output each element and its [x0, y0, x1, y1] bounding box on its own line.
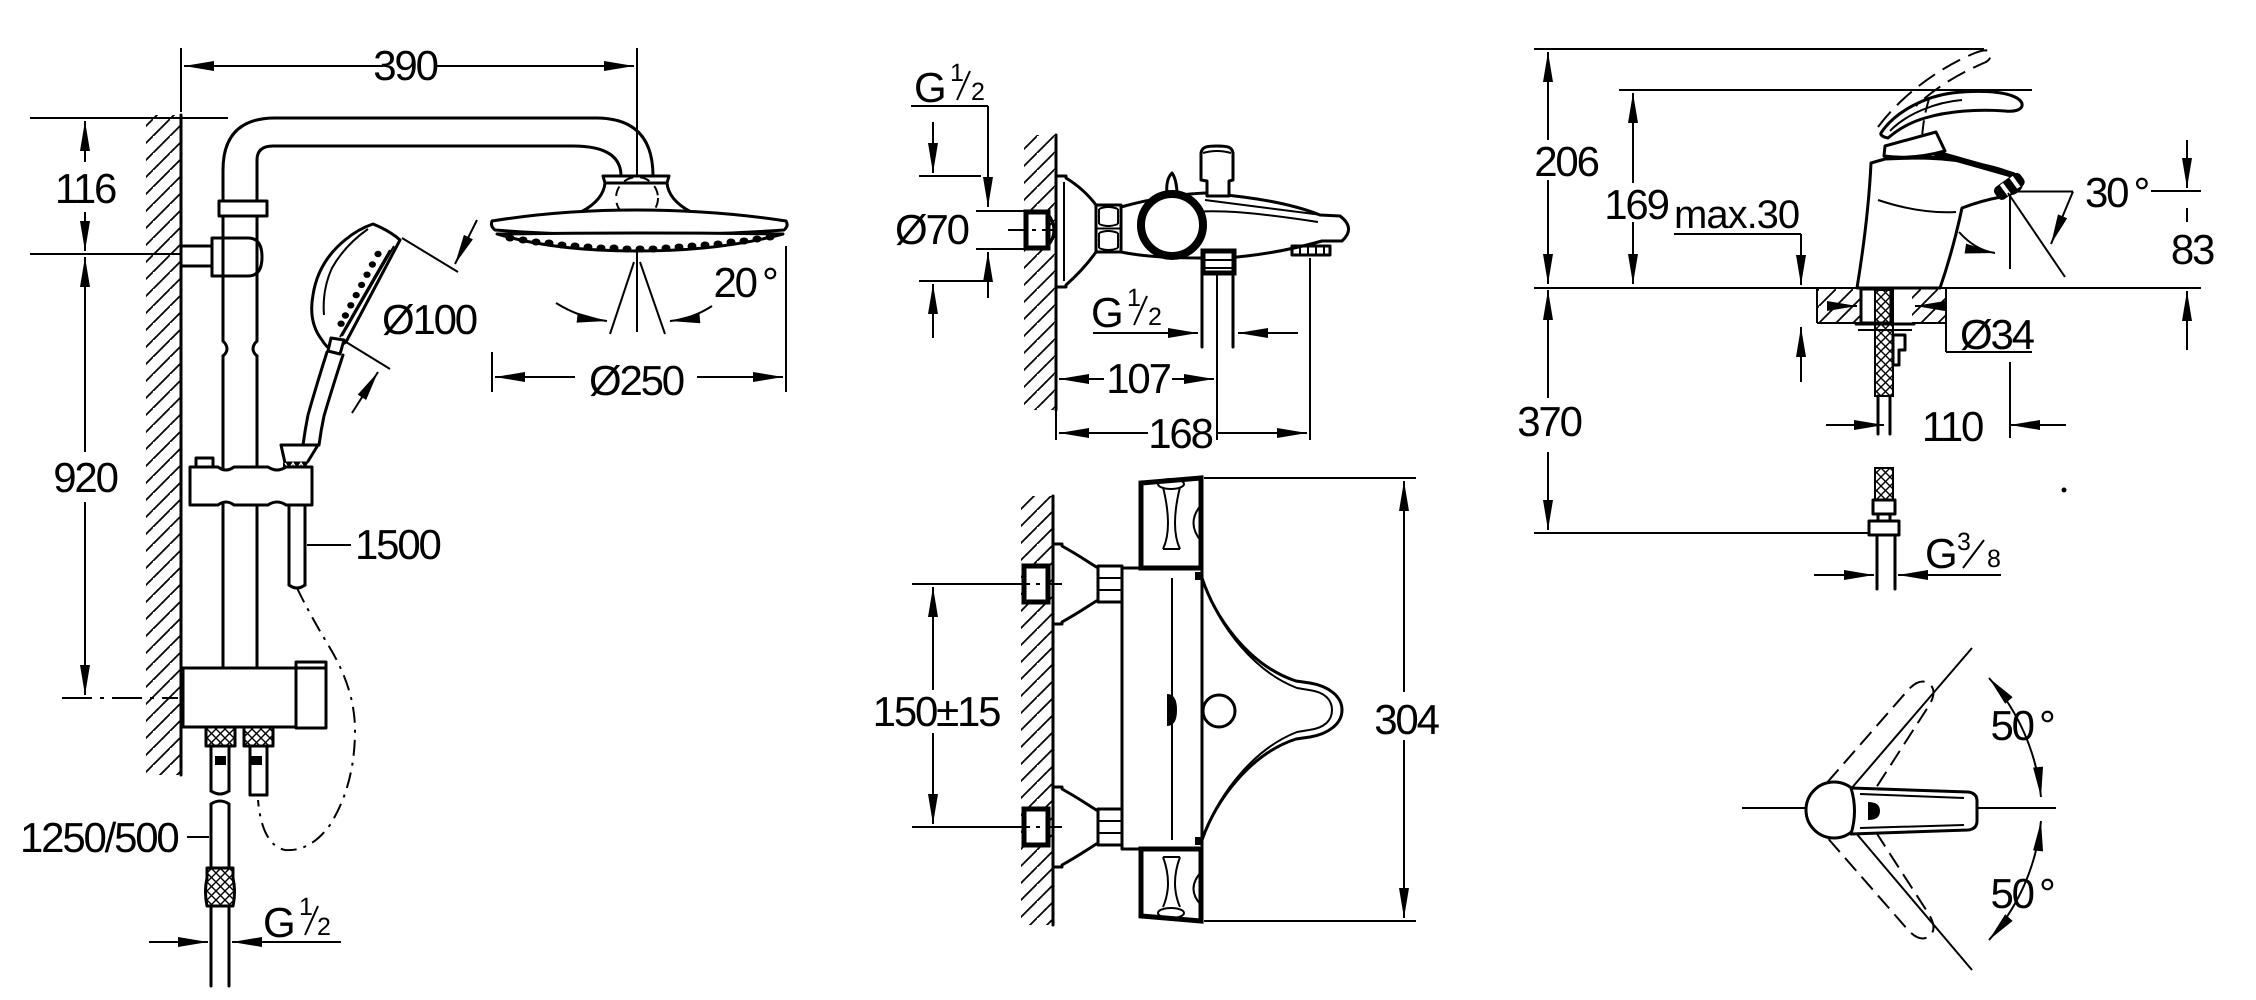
svg-text:50 °: 50 °: [1990, 870, 2054, 917]
svg-text:150±15: 150±15: [873, 688, 1000, 735]
svg-text:50 °: 50 °: [1990, 702, 2054, 749]
svg-text:1500: 1500: [355, 521, 440, 568]
svg-text:G: G: [1925, 530, 1955, 577]
svg-text:3: 3: [1957, 528, 1971, 556]
svg-text:169: 169: [1604, 181, 1668, 228]
svg-text:Ø70: Ø70: [895, 206, 969, 253]
svg-text:168: 168: [1148, 410, 1212, 457]
svg-text:206: 206: [1534, 138, 1598, 185]
svg-text:G: G: [914, 64, 944, 111]
svg-text:30 °: 30 °: [2085, 169, 2149, 216]
svg-text:Ø250: Ø250: [589, 357, 684, 404]
svg-text:20 °: 20 °: [713, 259, 777, 306]
svg-text:max.30: max.30: [1674, 193, 1799, 237]
svg-text:1: 1: [299, 893, 313, 921]
svg-text:2: 2: [971, 78, 985, 106]
svg-text:1: 1: [1127, 284, 1141, 312]
svg-text:1: 1: [950, 59, 964, 87]
svg-text:83: 83: [2171, 226, 2214, 273]
svg-text:107: 107: [1106, 355, 1170, 402]
svg-text:1250/500: 1250/500: [20, 814, 178, 861]
svg-text:G: G: [1091, 289, 1121, 336]
svg-text:116: 116: [55, 165, 116, 212]
svg-text:8: 8: [1987, 545, 2001, 573]
svg-text:Ø34: Ø34: [1960, 311, 2035, 358]
svg-text:2: 2: [317, 913, 331, 941]
svg-text:390: 390: [373, 42, 437, 89]
svg-text:920: 920: [53, 454, 117, 501]
svg-text:110: 110: [1922, 403, 1983, 450]
svg-text:G: G: [263, 899, 293, 946]
svg-text:370: 370: [1517, 398, 1581, 445]
svg-text:Ø100: Ø100: [382, 296, 477, 343]
svg-text:2: 2: [1148, 303, 1162, 331]
svg-text:304: 304: [1374, 696, 1439, 743]
